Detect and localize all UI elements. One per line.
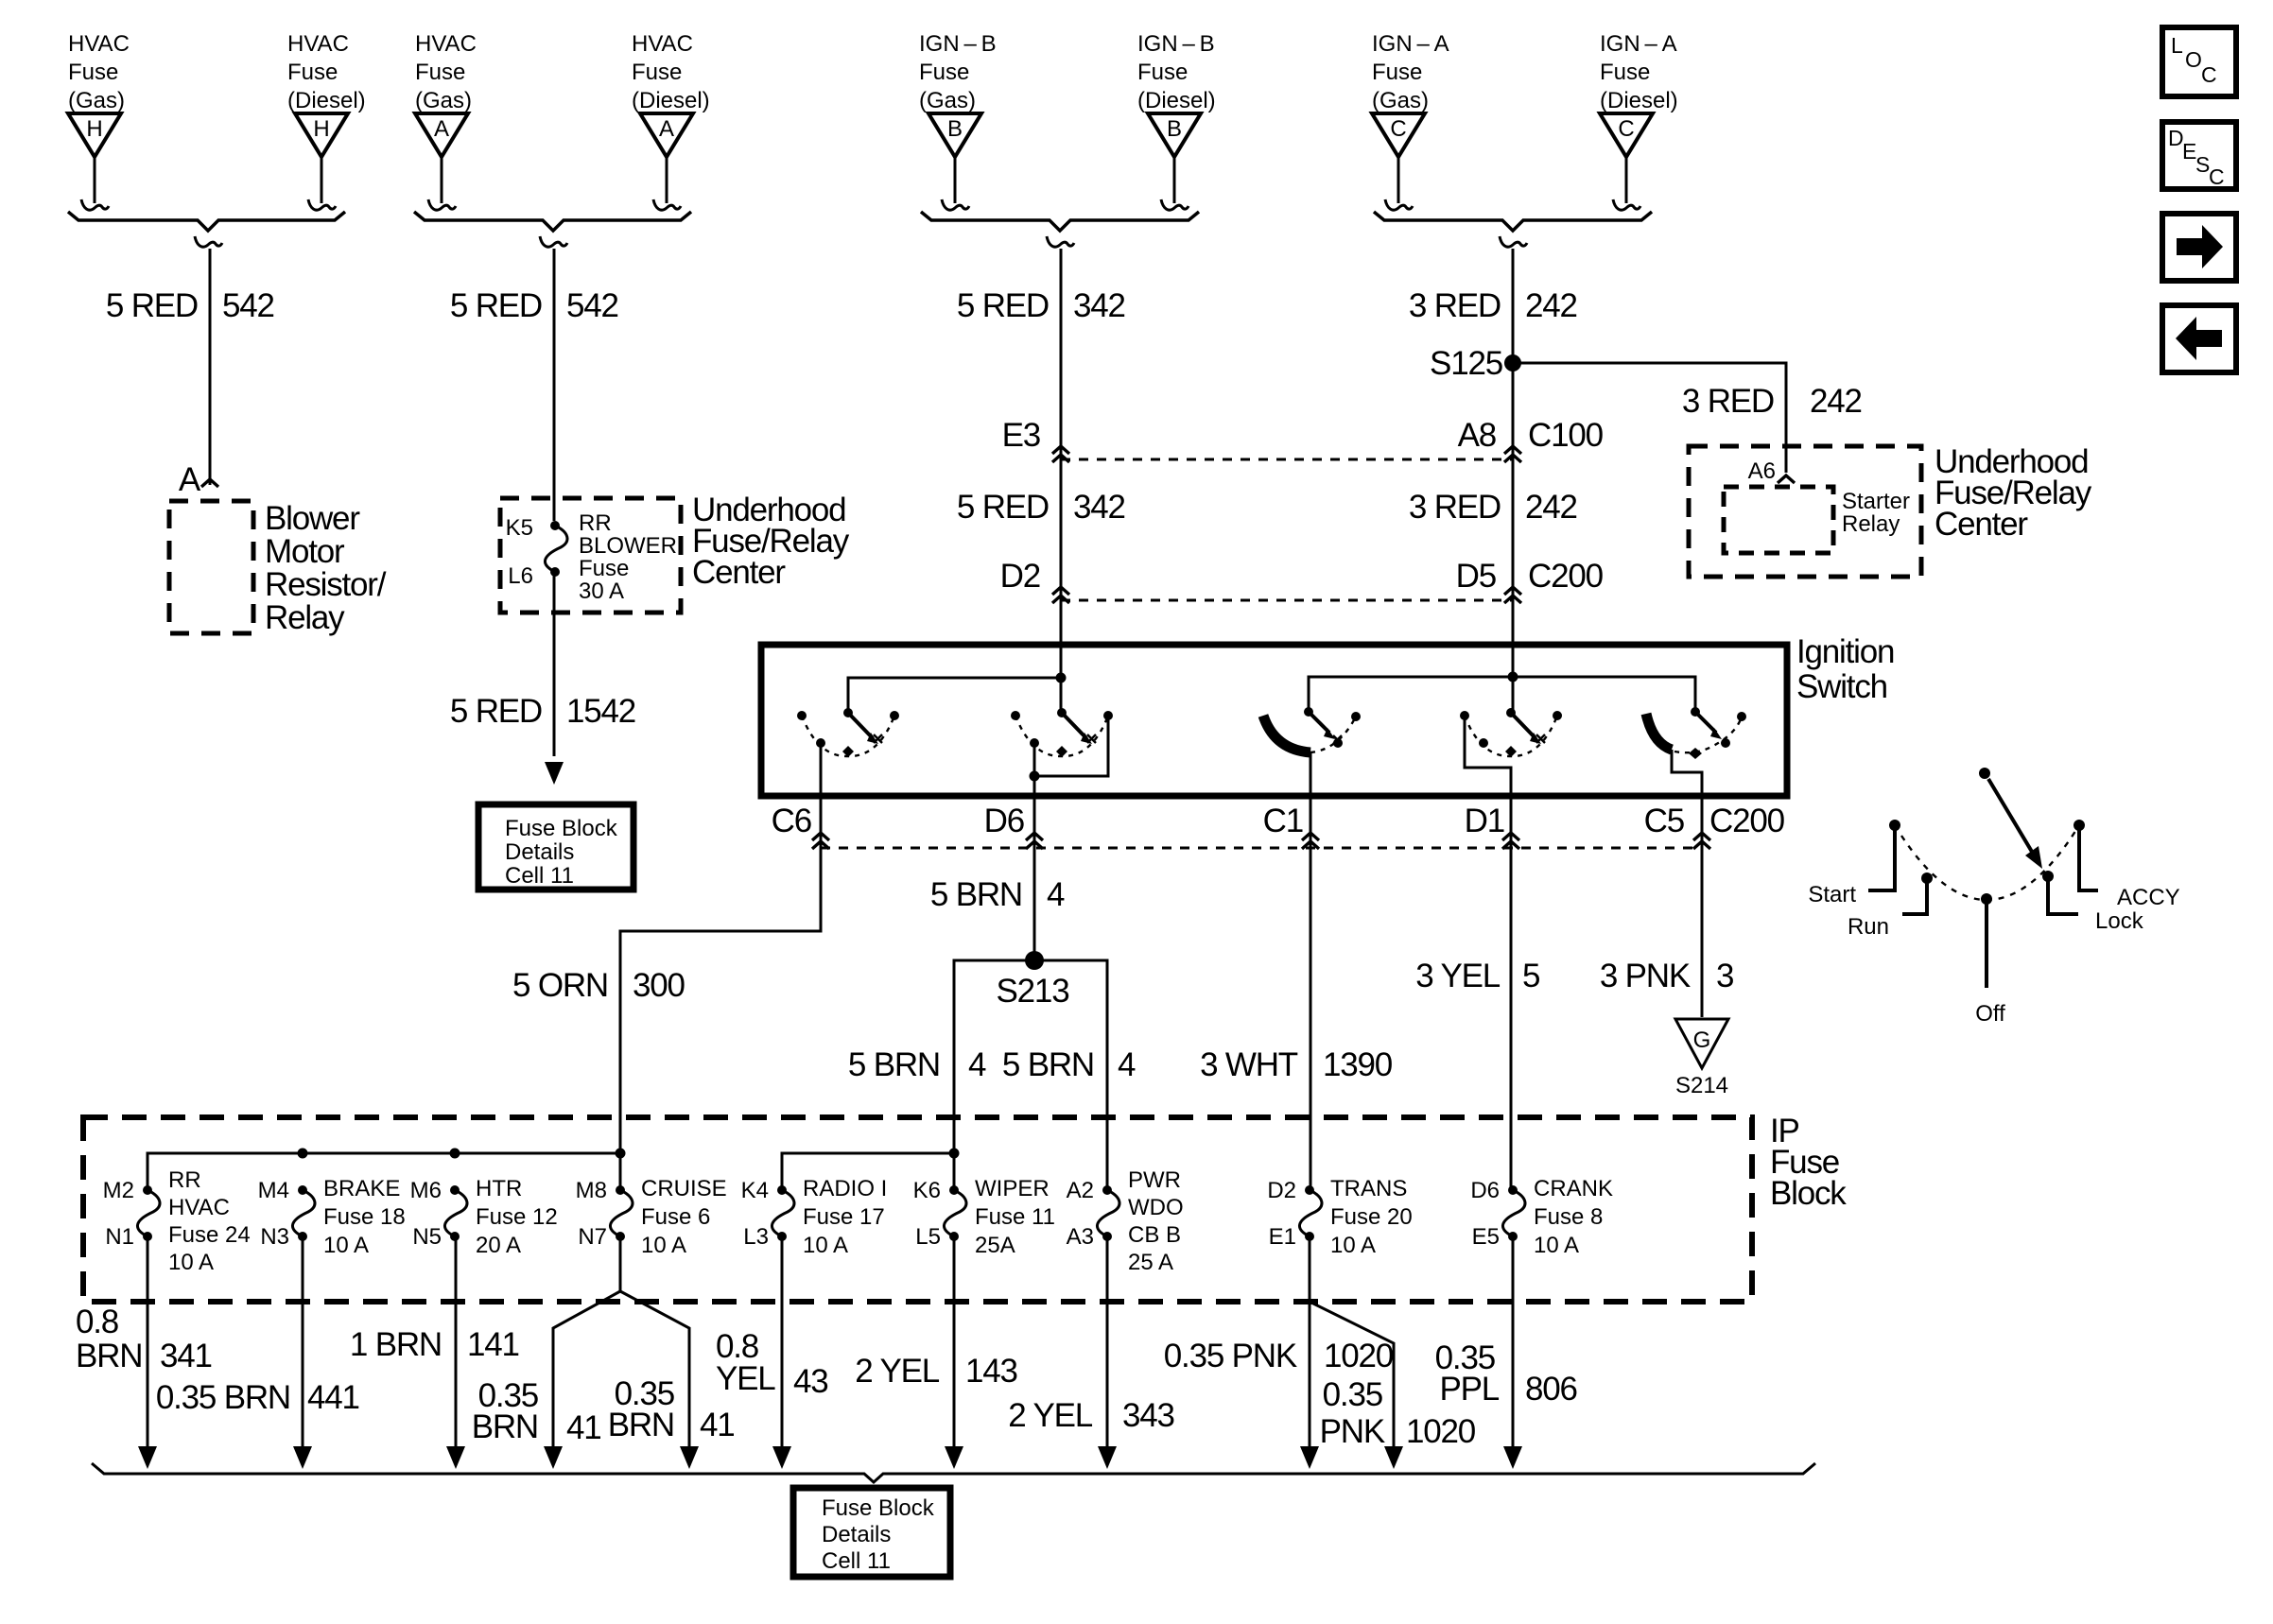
pin label C5 with chevrons bbox=[1644, 803, 1710, 849]
ignition switch pole 5 (START arc) bbox=[1646, 707, 1746, 858]
svg-text:M8: M8 bbox=[576, 1178, 607, 1203]
label 3 PNK 3 bbox=[1600, 958, 1733, 994]
label Blower Motor Resistor/Relay bbox=[265, 500, 387, 636]
svg-text:PNK: PNK bbox=[1320, 1413, 1385, 1450]
fuse symbol F8 IGN - A (Diesel) (triangle C) bbox=[1600, 31, 1678, 210]
label 3 RED 242 (upper) bbox=[1409, 287, 1577, 324]
fuse TRANS pins D2/E1 bbox=[1267, 1176, 1412, 1258]
svg-text:Cell 11: Cell 11 bbox=[822, 1548, 891, 1574]
svg-text:WIPER: WIPER bbox=[975, 1176, 1050, 1201]
ground triangle G S214 bbox=[1675, 1019, 1728, 1068]
svg-text:3: 3 bbox=[1716, 958, 1733, 994]
wire 242 IGN-A from fuses through S125 to ignition switch bbox=[1512, 249, 1515, 677]
svg-text:HVAC: HVAC bbox=[68, 31, 130, 57]
svg-text:Fuse 12: Fuse 12 bbox=[476, 1204, 558, 1230]
svg-text:BRN: BRN bbox=[76, 1338, 142, 1374]
svg-text:L6: L6 bbox=[508, 563, 533, 589]
svg-text:A: A bbox=[434, 116, 449, 142]
brace joining fuse pair 3 bbox=[921, 212, 1199, 247]
brace joining fuse pair 4 bbox=[1374, 212, 1652, 247]
label Fuse Block Details Cell 11 (upper) bbox=[505, 816, 618, 889]
arrow output PWR WDO bbox=[1098, 1446, 1117, 1469]
wire 441 output BRAKE fuse bbox=[302, 1236, 304, 1448]
svg-text:4: 4 bbox=[968, 1046, 986, 1083]
svg-text:3 RED: 3 RED bbox=[1409, 489, 1501, 526]
fuse block details cell 11 box (lower) bbox=[793, 1488, 950, 1577]
radio fuse feed wire from wiper wire bbox=[782, 1153, 954, 1190]
svg-text:25 A: 25 A bbox=[1128, 1250, 1173, 1275]
label 5 ORN 300 bbox=[512, 967, 685, 1004]
svg-text:S214: S214 bbox=[1675, 1073, 1728, 1098]
wire 341 output RR HVAC fuse bbox=[147, 1236, 149, 1448]
svg-text:Relay: Relay bbox=[265, 599, 345, 636]
svg-text:HVAC: HVAC bbox=[415, 31, 477, 57]
ignition switch pole 3 (IGN crank arc) bbox=[1263, 707, 1361, 858]
connector C100 chevrons at A8 bbox=[1504, 446, 1521, 462]
junction node on IGN-B feed inside switch bbox=[1056, 673, 1067, 683]
svg-text:Fuse 8: Fuse 8 bbox=[1534, 1204, 1603, 1230]
svg-text:Fuse Block: Fuse Block bbox=[505, 816, 618, 841]
label 1 BRN 141 bbox=[350, 1326, 519, 1363]
svg-text:Start: Start bbox=[1808, 882, 1856, 907]
svg-text:E1: E1 bbox=[1269, 1224, 1296, 1250]
wire 1020 output TRANS fuse bbox=[1309, 1236, 1311, 1448]
svg-text:YEL: YEL bbox=[716, 1360, 775, 1397]
pin label C6 with chevrons bbox=[772, 803, 829, 849]
ignition switch pole 1 (ACCY) bbox=[797, 708, 899, 858]
svg-text:Fuse: Fuse bbox=[287, 60, 338, 85]
connector chevron A into blower motor bbox=[201, 479, 218, 487]
wire 141 output HTR fuse bbox=[455, 1236, 458, 1448]
svg-text:A: A bbox=[179, 461, 201, 498]
svg-text:5 BRN: 5 BRN bbox=[930, 876, 1022, 913]
svg-text:(Gas): (Gas) bbox=[1372, 88, 1429, 113]
legend box arrow right bbox=[2162, 214, 2236, 281]
wire 3 from C5 to ground S214 bbox=[1701, 856, 1704, 1017]
ignition switch box bbox=[761, 645, 1787, 796]
svg-text:C: C bbox=[2209, 164, 2225, 189]
svg-text:20 A: 20 A bbox=[476, 1233, 521, 1258]
svg-text:IGN – B: IGN – B bbox=[919, 31, 997, 57]
wire 342 IGN-B from fuses to ignition switch bbox=[1060, 249, 1063, 678]
svg-text:Fuse 24: Fuse 24 bbox=[168, 1222, 251, 1248]
svg-text:143: 143 bbox=[965, 1353, 1017, 1390]
svg-text:L: L bbox=[2171, 33, 2183, 58]
svg-text:5: 5 bbox=[1522, 958, 1539, 994]
svg-text:Center: Center bbox=[1935, 506, 2028, 543]
fuse RADIO I pins K4/L3 bbox=[741, 1176, 888, 1258]
svg-text:Fuse: Fuse bbox=[1137, 60, 1188, 85]
wire 542 from HVAC fuses down into underhood center bbox=[553, 249, 556, 521]
connector C200 chevrons at D2 bbox=[1052, 587, 1069, 603]
svg-text:BLOWER: BLOWER bbox=[579, 533, 677, 559]
label 3 YEL 5 bbox=[1415, 958, 1539, 994]
svg-text:1020: 1020 bbox=[1324, 1338, 1394, 1374]
fuse CRUISE pins M8/N7 bbox=[576, 1176, 727, 1258]
svg-text:242: 242 bbox=[1810, 383, 1862, 420]
svg-text:PPL: PPL bbox=[1439, 1371, 1499, 1408]
svg-text:5 RED: 5 RED bbox=[450, 693, 542, 730]
label RR BLOWER Fuse 30 A bbox=[579, 510, 677, 604]
svg-text:A3: A3 bbox=[1067, 1224, 1094, 1250]
fuse CRANK pins D6/E5 bbox=[1470, 1176, 1613, 1258]
svg-text:C: C bbox=[1618, 116, 1634, 142]
svg-text:Fuse: Fuse bbox=[68, 60, 118, 85]
arrow output BRAKE bbox=[293, 1446, 312, 1469]
svg-text:S213: S213 bbox=[997, 973, 1069, 1010]
bottom collector brace bbox=[92, 1463, 1815, 1482]
label 5 RED 542 (wire 2) bbox=[450, 287, 618, 324]
key position legend (Start Run Off Lock ACCY) bbox=[1868, 768, 2098, 988]
svg-text:(Diesel): (Diesel) bbox=[1137, 88, 1216, 113]
fuse HTR pins M6/N5 bbox=[410, 1176, 558, 1258]
svg-text:806: 806 bbox=[1525, 1371, 1577, 1408]
svg-text:1542: 1542 bbox=[566, 693, 635, 730]
svg-text:3 YEL: 3 YEL bbox=[1415, 958, 1500, 994]
svg-text:3 RED: 3 RED bbox=[1682, 383, 1774, 420]
svg-text:O: O bbox=[2185, 47, 2202, 72]
svg-text:C100: C100 bbox=[1528, 417, 1604, 454]
svg-text:1020: 1020 bbox=[1406, 1413, 1476, 1450]
svg-text:5 RED: 5 RED bbox=[106, 287, 198, 324]
svg-text:L5: L5 bbox=[915, 1224, 941, 1250]
label 0.35 BRN 41 (right) bbox=[608, 1375, 735, 1443]
label 5 BRN 4 (right branch) bbox=[1002, 1046, 1136, 1083]
svg-text:E5: E5 bbox=[1472, 1224, 1500, 1250]
svg-text:542: 542 bbox=[222, 287, 274, 324]
arrow output CRANK bbox=[1503, 1446, 1522, 1469]
arrow output TRANS left bbox=[1300, 1446, 1319, 1469]
svg-text:242: 242 bbox=[1525, 489, 1577, 526]
junction node on IGN-A feed inside switch bbox=[1508, 672, 1518, 682]
splice S213 bbox=[1025, 951, 1044, 970]
wire 4 from D6 to splice S213 bbox=[1033, 856, 1036, 960]
svg-text:542: 542 bbox=[566, 287, 618, 324]
svg-text:Details: Details bbox=[505, 839, 574, 865]
svg-text:HVAC: HVAC bbox=[168, 1195, 230, 1220]
arrow output HTR bbox=[446, 1446, 465, 1469]
wire 1390 from C1 to trans fuse bbox=[1310, 856, 1312, 1190]
svg-text:RR: RR bbox=[579, 510, 612, 536]
label 5 RED 342 (lower) bbox=[957, 489, 1125, 526]
svg-text:2 YEL: 2 YEL bbox=[855, 1353, 939, 1390]
svg-text:K5: K5 bbox=[506, 515, 533, 541]
svg-text:1390: 1390 bbox=[1323, 1046, 1393, 1083]
label 0.35 BRN 41 (left) bbox=[472, 1377, 601, 1446]
svg-text:L3: L3 bbox=[743, 1224, 769, 1250]
svg-text:0.8: 0.8 bbox=[76, 1304, 118, 1340]
svg-text:D2: D2 bbox=[1267, 1178, 1296, 1203]
svg-text:5 ORN: 5 ORN bbox=[512, 967, 608, 1004]
svg-text:0.35 PNK: 0.35 PNK bbox=[1164, 1338, 1297, 1374]
svg-text:Fuse: Fuse bbox=[1372, 60, 1422, 85]
svg-text:E3: E3 bbox=[1002, 417, 1040, 454]
svg-text:B: B bbox=[947, 116, 963, 142]
svg-text:Fuse: Fuse bbox=[1600, 60, 1650, 85]
svg-text:BRN: BRN bbox=[608, 1407, 674, 1443]
pin label D6 with chevrons bbox=[984, 803, 1043, 849]
svg-text:10 A: 10 A bbox=[168, 1250, 214, 1275]
svg-text:343: 343 bbox=[1122, 1397, 1174, 1434]
svg-text:Block: Block bbox=[1770, 1175, 1847, 1212]
arrow output TRANS right bbox=[1384, 1446, 1403, 1469]
fuse WIPER pins K6/L5 bbox=[913, 1176, 1055, 1258]
label 2 YEL 143 bbox=[855, 1353, 1017, 1390]
label Ignition Switch bbox=[1796, 633, 1894, 705]
svg-text:BRN: BRN bbox=[472, 1408, 538, 1445]
label 5 BRN 4 (left branch) bbox=[848, 1046, 986, 1083]
arrow output WIPER bbox=[945, 1446, 963, 1469]
svg-text:(Gas): (Gas) bbox=[919, 88, 976, 113]
svg-text:0.35: 0.35 bbox=[1323, 1376, 1382, 1413]
svg-text:Switch: Switch bbox=[1796, 668, 1887, 705]
svg-text:(Gas): (Gas) bbox=[68, 88, 125, 113]
fuse symbol F5 IGN - B (Gas) (triangle B) bbox=[919, 31, 997, 210]
underhood fuse/relay center dashed box (starter relay outer) bbox=[1689, 446, 1921, 577]
pin label C1 with chevrons bbox=[1263, 803, 1319, 849]
svg-text:Center: Center bbox=[692, 554, 786, 591]
svg-text:25A: 25A bbox=[975, 1233, 1015, 1258]
pin label A8 and connector C100 bbox=[1458, 417, 1604, 454]
label 3 RED 242 (branch) bbox=[1682, 383, 1862, 420]
svg-text:4: 4 bbox=[1047, 876, 1065, 913]
label 0.35 PPL 806 bbox=[1435, 1339, 1577, 1408]
svg-text:141: 141 bbox=[467, 1326, 519, 1363]
svg-text:D2: D2 bbox=[1000, 558, 1040, 595]
svg-text:(Diesel): (Diesel) bbox=[287, 88, 366, 113]
svg-text:IGN – B: IGN – B bbox=[1137, 31, 1215, 57]
label Underhood Fuse/Relay Center (right) bbox=[1935, 443, 2092, 543]
S213 branch wires to wiper and pwr wdo bbox=[954, 960, 1107, 1190]
wire 1542 from RR blower fuse to fuse block details bbox=[553, 572, 556, 756]
label 0.8 BRN bbox=[76, 1304, 142, 1374]
svg-text:D6: D6 bbox=[1470, 1178, 1500, 1203]
feed wire to switch 4 pivot bbox=[1512, 677, 1515, 711]
svg-text:M6: M6 bbox=[410, 1178, 442, 1203]
svg-text:CRANK: CRANK bbox=[1534, 1176, 1613, 1201]
fuse BRAKE pins M4/N3 bbox=[258, 1176, 406, 1258]
brace joining fuse pair 1 bbox=[68, 212, 345, 247]
svg-text:WDO: WDO bbox=[1128, 1195, 1184, 1220]
svg-text:A: A bbox=[659, 116, 674, 142]
svg-text:CRUISE: CRUISE bbox=[641, 1176, 727, 1201]
svg-text:Cell 11: Cell 11 bbox=[505, 863, 574, 889]
wire 143 output WIPER fuse bbox=[953, 1236, 956, 1448]
svg-text:Ignition: Ignition bbox=[1796, 633, 1894, 670]
svg-text:5 RED: 5 RED bbox=[450, 287, 542, 324]
dashed connector line below ignition switch bbox=[821, 847, 1702, 850]
arrow into fuse block details bbox=[545, 762, 564, 785]
fuse symbol F4 HVAC (Diesel) (triangle A) bbox=[632, 31, 710, 210]
arrow output RR HVAC bbox=[138, 1446, 157, 1469]
label 0.8 YEL 43 bbox=[716, 1328, 828, 1400]
svg-text:M2: M2 bbox=[103, 1178, 134, 1203]
svg-text:C6: C6 bbox=[772, 803, 811, 839]
svg-text:Fuse: Fuse bbox=[632, 60, 682, 85]
brace joining fuse pair 2 bbox=[414, 212, 691, 247]
svg-text:D1: D1 bbox=[1465, 803, 1504, 839]
wire 242 branch from S125 to starter relay bbox=[1513, 363, 1786, 473]
fuse block feed bus from cruise wire bbox=[147, 1153, 620, 1190]
svg-text:C: C bbox=[2201, 62, 2217, 87]
blower motor resistor/relay dashed box bbox=[169, 501, 253, 633]
RR BLOWER fuse 30A element bbox=[545, 521, 567, 577]
svg-text:HVAC: HVAC bbox=[287, 31, 349, 57]
svg-text:Run: Run bbox=[1848, 914, 1889, 940]
svg-text:RR: RR bbox=[168, 1167, 201, 1193]
svg-text:(Gas): (Gas) bbox=[415, 88, 472, 113]
svg-text:5 RED: 5 RED bbox=[957, 287, 1049, 324]
svg-text:10 A: 10 A bbox=[323, 1233, 369, 1258]
svg-text:K4: K4 bbox=[741, 1178, 769, 1203]
fuse symbol F3 HVAC (Gas) (triangle A) bbox=[415, 31, 477, 210]
label 0.35 PNK 1020 (second) bbox=[1320, 1376, 1476, 1450]
svg-text:Fuse 11: Fuse 11 bbox=[975, 1204, 1055, 1230]
svg-text:Blower: Blower bbox=[265, 500, 360, 537]
svg-text:Fuse 18: Fuse 18 bbox=[323, 1204, 406, 1230]
wire 43 output RADIO fuse bbox=[781, 1236, 784, 1448]
svg-text:5 BRN: 5 BRN bbox=[1002, 1046, 1094, 1083]
fuse symbol F2 HVAC (Diesel) (triangle H) bbox=[287, 31, 366, 210]
svg-text:TRANS: TRANS bbox=[1330, 1176, 1407, 1201]
svg-text:IGN – A: IGN – A bbox=[1372, 31, 1449, 57]
svg-text:Fuse: Fuse bbox=[579, 556, 629, 581]
underhood fuse/relay center dashed box (RR blower) bbox=[500, 498, 681, 613]
fuse symbol F6 IGN - B (Diesel) (triangle B) bbox=[1137, 31, 1216, 210]
svg-text:A6: A6 bbox=[1748, 458, 1776, 484]
svg-text:(Diesel): (Diesel) bbox=[632, 88, 710, 113]
fuse block details cell 11 box (upper) bbox=[478, 804, 633, 890]
svg-text:IGN – A: IGN – A bbox=[1600, 31, 1677, 57]
label 5 RED 1542 bbox=[450, 693, 635, 730]
svg-text:C200: C200 bbox=[1528, 558, 1604, 595]
wire 542 from HVAC fuses down to blower motor resistor bbox=[209, 249, 212, 485]
svg-text:PWR: PWR bbox=[1128, 1167, 1181, 1193]
svg-text:S125: S125 bbox=[1430, 345, 1502, 382]
svg-text:342: 342 bbox=[1073, 489, 1125, 526]
wire 806 output CRANK fuse bbox=[1512, 1236, 1515, 1448]
label IP Fuse Block bbox=[1770, 1113, 1847, 1212]
ignition switch pole 4 (BULB TEST) bbox=[1460, 708, 1562, 858]
fuse PWR pins A2/A3 bbox=[1067, 1167, 1184, 1275]
pin label D1 with chevrons bbox=[1465, 803, 1519, 849]
svg-text:Relay: Relay bbox=[1842, 511, 1900, 537]
label 0.35 PNK 1020 bbox=[1164, 1338, 1394, 1374]
label Underhood Fuse/Relay Center (left) bbox=[692, 492, 850, 591]
pin label D5 and connector C200 bbox=[1456, 558, 1604, 595]
svg-text:Starter: Starter bbox=[1842, 489, 1910, 514]
svg-text:CB B: CB B bbox=[1128, 1222, 1181, 1248]
dashed connector line C100 bbox=[1061, 458, 1513, 461]
svg-text:RADIO I: RADIO I bbox=[803, 1176, 887, 1201]
starter relay inner dashed box bbox=[1724, 487, 1833, 553]
wire 41 output CRUISE fuse split bbox=[619, 1236, 622, 1291]
IP fuse block dashed box bbox=[83, 1117, 1752, 1302]
svg-text:Details: Details bbox=[822, 1522, 891, 1547]
svg-text:5 RED: 5 RED bbox=[957, 489, 1049, 526]
svg-text:41: 41 bbox=[700, 1407, 735, 1443]
svg-text:Fuse Block: Fuse Block bbox=[822, 1495, 935, 1521]
svg-text:441: 441 bbox=[307, 1379, 359, 1416]
svg-text:Fuse 20: Fuse 20 bbox=[1330, 1204, 1413, 1230]
connector C200 chevrons at D5 bbox=[1504, 587, 1521, 603]
svg-text:1 BRN: 1 BRN bbox=[350, 1326, 442, 1363]
label 0.35 BRN 441 bbox=[156, 1379, 359, 1416]
label 3 RED 242 (lower) bbox=[1409, 489, 1577, 526]
fuse RR pins M2/N1 bbox=[103, 1167, 251, 1275]
svg-text:41: 41 bbox=[566, 1409, 601, 1446]
label Starter Relay bbox=[1842, 489, 1910, 537]
svg-text:HTR: HTR bbox=[476, 1176, 522, 1201]
svg-text:2 YEL: 2 YEL bbox=[1008, 1397, 1092, 1434]
svg-text:M4: M4 bbox=[258, 1178, 289, 1203]
svg-text:BRAKE: BRAKE bbox=[323, 1176, 400, 1201]
svg-text:HVAC: HVAC bbox=[632, 31, 693, 57]
svg-text:ACCY: ACCY bbox=[2117, 885, 2180, 910]
connector chevron A6 bbox=[1778, 475, 1795, 483]
svg-text:C200: C200 bbox=[1709, 803, 1785, 839]
label Fuse Block Details Cell 11 (lower) bbox=[822, 1495, 935, 1574]
svg-text:30 A: 30 A bbox=[579, 579, 624, 604]
svg-text:A2: A2 bbox=[1067, 1178, 1094, 1203]
svg-text:5 BRN: 5 BRN bbox=[848, 1046, 940, 1083]
junction node wiper-radio feed bbox=[949, 1149, 960, 1159]
label 3 WHT 1390 bbox=[1200, 1046, 1393, 1083]
label 2 YEL 343 bbox=[1008, 1397, 1174, 1434]
svg-text:C: C bbox=[1390, 116, 1406, 142]
legend box LOC bbox=[2162, 27, 2236, 96]
svg-text:Fuse: Fuse bbox=[919, 60, 969, 85]
svg-text:N3: N3 bbox=[260, 1224, 289, 1250]
svg-text:C5: C5 bbox=[1644, 803, 1684, 839]
svg-text:A8: A8 bbox=[1458, 417, 1496, 454]
svg-text:342: 342 bbox=[1073, 287, 1125, 324]
svg-text:Fuse: Fuse bbox=[415, 60, 465, 85]
svg-text:Resistor/: Resistor/ bbox=[265, 566, 387, 603]
feed wire to switch 1 pivot bbox=[848, 678, 1061, 711]
svg-text:10 A: 10 A bbox=[641, 1233, 686, 1258]
svg-text:300: 300 bbox=[633, 967, 685, 1004]
arrow output CRUISE right bbox=[680, 1446, 699, 1469]
svg-text:242: 242 bbox=[1525, 287, 1577, 324]
ignition switch pole 2 (RUN) bbox=[1011, 708, 1113, 858]
dashed connector line C200 bbox=[1061, 599, 1513, 602]
svg-text:Off: Off bbox=[1975, 1001, 2005, 1027]
svg-text:Fuse 17: Fuse 17 bbox=[803, 1204, 885, 1230]
svg-text:N5: N5 bbox=[412, 1224, 442, 1250]
svg-text:H: H bbox=[86, 116, 102, 142]
feed wire to switch 2 pivot bbox=[1060, 678, 1063, 711]
legend box arrow left bbox=[2162, 305, 2236, 372]
junction node bus-M4 bbox=[298, 1149, 308, 1159]
svg-text:43: 43 bbox=[793, 1363, 828, 1400]
svg-text:N1: N1 bbox=[105, 1224, 134, 1250]
fuse symbol F1 HVAC (Gas) (triangle H) bbox=[68, 31, 130, 210]
svg-text:4: 4 bbox=[1118, 1046, 1136, 1083]
svg-text:H: H bbox=[313, 116, 329, 142]
svg-text:0.35 BRN: 0.35 BRN bbox=[156, 1379, 290, 1416]
feed wire to switch 3 and switch 5 pivots bbox=[1309, 677, 1695, 712]
wire 300 from C6 to cruise fuse bbox=[620, 856, 821, 1190]
svg-text:3 WHT: 3 WHT bbox=[1200, 1046, 1298, 1083]
svg-text:N7: N7 bbox=[578, 1224, 607, 1250]
svg-text:3 PNK: 3 PNK bbox=[1600, 958, 1691, 994]
junction node bus-M6 bbox=[450, 1149, 460, 1159]
label 5 RED 342 (upper) bbox=[957, 287, 1125, 324]
svg-text:B: B bbox=[1167, 116, 1182, 142]
connector C100 chevrons at E3 bbox=[1052, 446, 1069, 462]
wire 5 from D1 to crank fuse bbox=[1510, 856, 1513, 1190]
